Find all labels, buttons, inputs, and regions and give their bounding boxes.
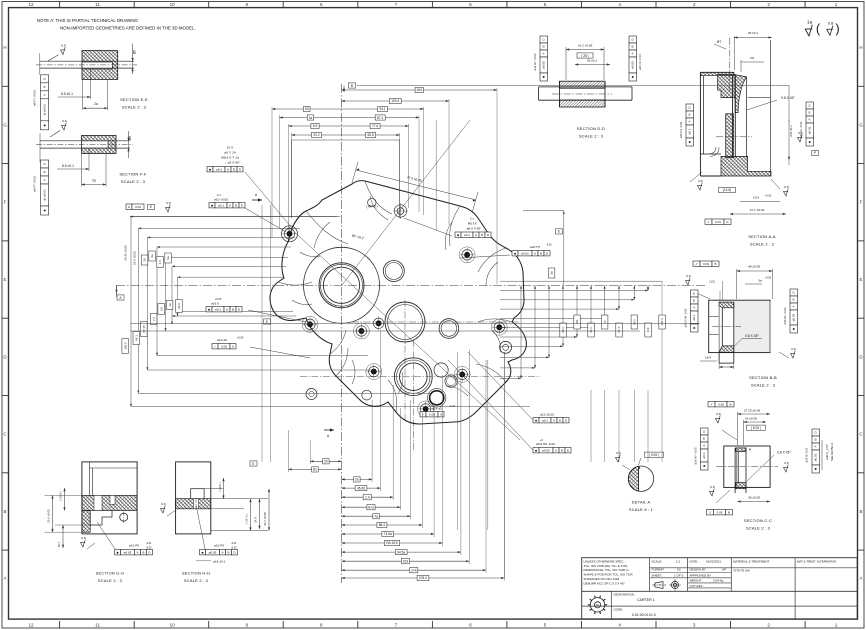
section B-B left datum stack — [691, 290, 699, 332]
svg-text:105.4: 105.4 — [419, 576, 427, 580]
mid bore left — [385, 302, 425, 342]
svg-text:27.1 ±0.02: 27.1 ±0.02 — [750, 208, 765, 212]
svg-text:ø0.1: ø0.1 — [464, 233, 470, 237]
upper lug bolt — [397, 208, 404, 215]
section F-F hatched bushing — [82, 136, 117, 154]
svg-text://: // — [696, 262, 698, 266]
svg-text:M6x1.0 ↧ 2a: M6x1.0 ↧ 2a — [221, 156, 239, 160]
top stack inner rectangle lines — [291, 140, 293, 218]
svg-text:NON-IMPORTED GEOMETRIES ARE DE: NON-IMPORTED GEOMETRIES ARE DEFINED IN T… — [60, 26, 196, 31]
svg-text:26 ±0.1: 26 ±0.1 — [587, 59, 598, 63]
svg-text:+0.05: +0.05 — [237, 336, 244, 340]
left stack lower horizontals — [147, 369, 372, 371]
svg-text:87.15: 87.15 — [142, 325, 146, 333]
svg-text:30: 30 — [143, 258, 147, 262]
svg-text:ø6.6 H8 -0.02: ø6.6 H8 -0.02 — [536, 442, 555, 446]
svg-text:SCALE 2 : 3: SCALE 2 : 3 — [746, 526, 771, 531]
central part main outline — [270, 181, 526, 424]
section E-E dia 5 dim — [132, 44, 134, 74]
svg-text:⌄ ø5 X 90°: ⌄ ø5 X 90° — [224, 161, 240, 165]
svg-text:WEIGHT :: WEIGHT : — [690, 579, 704, 583]
svg-text:24 ±0.05: 24 ±0.05 — [745, 417, 757, 421]
svg-text:B: B — [702, 437, 706, 439]
svg-text:1+4: 1+4 — [411, 569, 417, 573]
svg-text:0.8 X 45°: 0.8 X 45° — [777, 451, 791, 455]
section C-C dim (8.25) — [747, 425, 766, 430]
svg-text:8: 8 — [320, 623, 323, 628]
svg-text:B: B — [729, 402, 731, 406]
view arrow A bottom — [330, 428, 334, 431]
zone band ticks and numbers top — [59, 2, 61, 8]
section A-A left wall lines — [699, 72, 701, 176]
svg-text:5: 5 — [544, 623, 547, 628]
svg-text:2a: 2a — [550, 271, 554, 275]
svg-text:94.5a: 94.5a — [397, 550, 405, 554]
svg-text:TOL. ISO 2768 (6H) 7O+ E 7OS): TOL. ISO 2768 (6H) 7O+ E 7OS) — [584, 564, 628, 568]
svg-text:ø10 P9: ø10 P9 — [214, 544, 224, 548]
left lug circle — [362, 390, 372, 400]
svg-text:0.8: 0.8 — [716, 412, 721, 416]
svg-text:12: 12 — [28, 2, 34, 7]
section A-A surface lower right — [783, 185, 788, 196]
svg-text:A: A — [692, 306, 696, 308]
svg-text:3a: 3a — [758, 279, 762, 283]
svg-text:23.6 ±0.05: 23.6 ±0.05 — [47, 509, 51, 523]
svg-text:8.5 ±0.1: 8.5 ±0.1 — [61, 92, 73, 96]
svg-text:(12): (12) — [709, 280, 715, 284]
svg-text:24.8: 24.8 — [254, 517, 258, 523]
svg-text:0.8: 0.8 — [828, 21, 834, 26]
svg-text:0.8: 0.8 — [62, 119, 67, 123]
title block designation row line — [582, 590, 858, 592]
section B-B bushing hatch bottom — [719, 346, 734, 352]
section B-B surface mark right — [790, 347, 795, 358]
section A-A parallel frame — [705, 219, 731, 224]
svg-text:A: A — [808, 118, 812, 120]
section H-H step box — [191, 489, 204, 499]
svg-text:SCALE 2 : 3: SCALE 2 : 3 — [579, 134, 604, 139]
svg-text:ø14 a5: ø14 a5 — [432, 407, 442, 411]
right lug circle — [500, 341, 512, 353]
svg-text:1:2: 1:2 — [676, 560, 681, 564]
svg-text:A: A — [440, 412, 442, 416]
svg-text:ø0.1: ø0.1 — [216, 167, 222, 171]
svg-text:11: 11 — [95, 623, 100, 628]
svg-text:E: E — [252, 462, 254, 466]
svg-text:A: A — [42, 94, 46, 96]
svg-text://: // — [709, 510, 711, 514]
detail A hatch crescent — [628, 466, 638, 491]
svg-text:( 0.05 ): ( 0.05 ) — [649, 453, 659, 457]
svg-text:+0.05: +0.05 — [765, 195, 772, 198]
svg-text:75.4: 75.4 — [617, 327, 621, 333]
section C-C ring hatch bottom — [736, 483, 746, 489]
svg-text:ø8 F7 +0.03: ø8 F7 +0.03 — [33, 90, 37, 106]
svg-text:MATERIAL & TREATMENT: MATERIAL & TREATMENT — [733, 560, 770, 564]
svg-text:0.05: 0.05 — [717, 510, 723, 514]
svg-text:(12.6): (12.6) — [723, 188, 731, 192]
svg-text:45.6: 45.6 — [589, 327, 593, 333]
section C-C left datum stack — [701, 428, 709, 470]
svg-text:-0.02: -0.02 — [146, 547, 152, 550]
title block outer — [582, 558, 858, 619]
svg-text:ø0.05: ø0.05 — [124, 550, 132, 554]
svg-text:0.8: 0.8 — [784, 185, 789, 189]
section B-B parallel frame top — [693, 261, 719, 266]
svg-text:B: B — [542, 45, 546, 47]
section F-F surface mark — [61, 119, 66, 130]
svg-text:ø0.02: ø0.02 — [521, 251, 529, 255]
svg-text:( 10.9 ): ( 10.9 ) — [218, 482, 222, 491]
right vertical dim from part top — [523, 210, 564, 212]
svg-text:ø16 h6 -0.01: ø16 h6 -0.01 — [638, 54, 642, 70]
svg-text:): ) — [835, 21, 839, 36]
svg-text:27.25 ±0.05: 27.25 ±0.05 — [744, 409, 761, 413]
svg-text:0.8: 0.8 — [161, 502, 166, 506]
svg-text:G: G — [3, 122, 7, 127]
svg-text:E: E — [150, 205, 152, 209]
section A-A curved wedge hatch — [735, 75, 746, 113]
long horizontal line mid1 — [130, 322, 700, 324]
svg-text:SCALE 2 : 3: SCALE 2 : 3 — [122, 105, 147, 110]
svg-text:SCALE 2 : 3: SCALE 2 : 3 — [98, 578, 123, 583]
svg-text:0.8: 0.8 — [750, 56, 755, 60]
svg-text:103: 103 — [403, 560, 409, 564]
svg-text:B: B — [540, 251, 542, 255]
svg-text:B: B — [792, 298, 796, 300]
svg-text:ø0.1: ø0.1 — [692, 314, 696, 320]
svg-text:ø0.05: ø0.05 — [542, 61, 546, 69]
svg-text:11: 11 — [95, 2, 100, 7]
svg-text:1: 1 — [835, 2, 838, 7]
right staircase verticals — [647, 285, 649, 290]
section A-A top hatched bar — [700, 72, 734, 75]
svg-text:0.8 X 45°: 0.8 X 45° — [781, 96, 795, 100]
svg-text:ø0.05: ø0.05 — [209, 550, 217, 554]
svg-text:( Ø7.5 ): ( Ø7.5 ) — [366, 205, 377, 209]
svg-text:ø26 H7 +0.05: ø26 H7 +0.05 — [694, 447, 698, 464]
svg-text:C: C — [3, 432, 6, 437]
svg-text:B: B — [142, 550, 144, 554]
section B-B body — [709, 300, 770, 352]
svg-text:74.5a: 74.5a — [384, 532, 392, 536]
left stack G frame — [126, 204, 144, 209]
svg-text:4: 4 — [618, 2, 621, 7]
title block gear logo — [588, 596, 607, 614]
svg-text:20.6: 20.6 — [561, 327, 565, 333]
svg-text://: // — [708, 220, 710, 224]
svg-text:AP: AP — [722, 568, 726, 572]
svg-text:8+3: 8+3 — [368, 505, 374, 509]
section B-B centerline — [712, 326, 741, 328]
svg-text:( 24.1 ): ( 24.1 ) — [245, 514, 249, 523]
section B-B surface mark left — [685, 274, 690, 285]
svg-text:B: B — [814, 438, 818, 440]
svg-text:DESIGN BY :: DESIGN BY : — [690, 568, 708, 572]
svg-text:88.4: 88.4 — [379, 523, 385, 527]
bolt holes with washers — [287, 231, 292, 236]
svg-text:0.8: 0.8 — [784, 461, 789, 465]
svg-text:SECTION A-A: SECTION A-A — [748, 234, 776, 239]
section D-D hatched bushing — [560, 81, 606, 88]
svg-text:A: A — [136, 550, 138, 554]
svg-text:0.8: 0.8 — [798, 131, 803, 135]
section F-F dia 5 dim — [128, 131, 130, 158]
svg-text:B: B — [227, 550, 229, 554]
svg-text:30a: 30a — [575, 319, 579, 324]
title block verticals — [649, 558, 651, 592]
section C-C surface small — [783, 461, 788, 472]
svg-text:ø20 H7: ø20 H7 — [530, 245, 540, 249]
section E-E datum frames — [41, 75, 49, 130]
svg-text:ø0.05: ø0.05 — [631, 61, 635, 69]
svg-text:DATE :: DATE : — [690, 560, 700, 564]
svg-text:A2: A2 — [677, 568, 681, 572]
section F-F left extension — [39, 133, 41, 162]
svg-text:SECTION D-D: SECTION D-D — [577, 126, 605, 131]
svg-text:38 ±0.05: 38 ±0.05 — [748, 496, 760, 500]
svg-text:D: D — [3, 354, 6, 359]
section G-G hatch band — [82, 495, 137, 510]
section A-A face step line — [748, 97, 771, 99]
svg-text:2.04 Kg: 2.04 Kg — [713, 579, 724, 583]
svg-text:48 ±0.05: 48 ±0.05 — [748, 265, 760, 269]
long horizontal line upper — [130, 216, 340, 218]
svg-text:94.1: 94.1 — [379, 107, 385, 111]
left stack surface mark — [165, 201, 170, 212]
svg-text:12: 12 — [28, 623, 34, 628]
section H-H body outline — [176, 462, 211, 534]
svg-text:SCALE 2 : 3: SCALE 2 : 3 — [184, 578, 209, 583]
slanted dim 47.5 — [352, 162, 358, 183]
section E-E centerline — [36, 64, 137, 66]
section A-A dim (12.6) — [719, 187, 736, 192]
section F-F centerline — [36, 144, 133, 146]
svg-text:A: A — [232, 344, 234, 348]
svg-text:A: A — [229, 203, 231, 207]
svg-text:63: 63 — [305, 107, 309, 111]
svg-text:DETAIL A: DETAIL A — [632, 500, 651, 505]
section A-A centerline — [729, 38, 731, 92]
svg-text:1.5: 1.5 — [158, 260, 162, 264]
svg-text:65.5: 65.5 — [367, 133, 373, 137]
small top boss — [368, 198, 376, 206]
svg-text:A: A — [702, 444, 706, 446]
rotated label right column — [548, 268, 555, 278]
svg-text:CODE :: CODE : — [614, 607, 625, 611]
svg-text:128.4: 128.4 — [660, 318, 664, 326]
right side verticals to sections — [457, 352, 459, 530]
section F-F bore lines — [40, 140, 130, 142]
svg-text:SECTION E-E: SECTION E-E — [120, 97, 148, 102]
svg-text:A: A — [555, 448, 557, 452]
svg-text:7: 7 — [395, 2, 398, 7]
main bore circles — [319, 263, 364, 308]
svg-text:SURFACES ISO ISO 1302: SURFACES ISO ISO 1302 — [584, 577, 620, 581]
svg-text:B: B — [481, 233, 483, 237]
svg-text:A: A — [553, 418, 555, 422]
svg-text:B: B — [42, 86, 46, 88]
right staircase rotated labels — [560, 323, 567, 337]
svg-text:FORMAT :: FORMAT : — [652, 568, 666, 572]
svg-text:Ø7: Ø7 — [717, 40, 722, 44]
title block projection symbols — [653, 580, 681, 591]
svg-text:B: B — [692, 299, 696, 301]
long horizontal line lower — [131, 406, 530, 408]
section H-H surface mark — [160, 502, 165, 513]
svg-text:66.45 ±0.05: 66.45 ±0.05 — [124, 245, 128, 261]
svg-text:0.8: 0.8 — [791, 347, 796, 351]
svg-text:SCALE 2 : 3: SCALE 2 : 3 — [121, 179, 146, 184]
central part inner pocket outline — [292, 196, 501, 396]
svg-text:1.4: 1.4 — [365, 495, 370, 499]
svg-text:100.4: 100.4 — [391, 99, 399, 103]
main bore boss arc — [304, 247, 380, 323]
svg-text:1a: 1a — [807, 20, 813, 25]
svg-text:ø47 F6 +0.02: ø47 F6 +0.02 — [799, 121, 803, 138]
svg-text:2: 2 — [767, 623, 770, 628]
section G-G inner step lines — [89, 462, 91, 496]
section A-A left datum stack — [686, 104, 694, 146]
svg-text:5.5: 5.5 — [313, 124, 318, 128]
section G-G body outline — [82, 462, 137, 534]
svg-text:-0.01: -0.01 — [546, 244, 552, 247]
svg-text:2 x: 2 x — [470, 217, 475, 221]
svg-text:20: 20 — [324, 460, 328, 464]
section G-G lower-left hatch — [82, 511, 90, 533]
view arrow A top — [258, 198, 262, 201]
section A-A datum target P — [812, 150, 819, 155]
svg-text:7.1: 7.1 — [152, 317, 156, 321]
svg-text://: // — [711, 402, 713, 406]
top dimension stack — [342, 89, 498, 91]
svg-text:SHEET :: SHEET : — [652, 573, 664, 577]
svg-text:4: 4 — [618, 623, 621, 628]
svg-text:H: H — [859, 45, 862, 50]
svg-text:CARTER 1: CARTER 1 — [637, 598, 655, 602]
svg-text:0.8: 0.8 — [686, 274, 691, 278]
svg-text:( 8.25 ): ( 8.25 ) — [751, 426, 761, 430]
svg-text:SECTION G-G: SECTION G-G — [96, 571, 125, 576]
svg-text:ø0.1: ø0.1 — [688, 128, 692, 134]
svg-text:H: H — [3, 45, 6, 50]
section D-D left datum stack — [540, 36, 548, 81]
svg-text:Ø5: Ø5 — [128, 136, 132, 140]
svg-text:94.1: 94.1 — [134, 335, 138, 341]
svg-text:6.5: 6.5 — [159, 307, 163, 311]
svg-text:SCALE :: SCALE : — [652, 560, 664, 564]
svg-text:FG: FG — [596, 603, 600, 607]
central part inner web curves — [278, 181, 512, 412]
svg-text:0.03: 0.03 — [703, 262, 709, 266]
section D-D right datum stack — [629, 36, 637, 81]
svg-text:7a: 7a — [374, 515, 378, 519]
svg-text:A: A — [814, 445, 818, 447]
svg-text:ø0.05: ø0.05 — [542, 448, 550, 452]
diagonal cut-plane trace — [288, 226, 520, 440]
section C-C surface mark top — [715, 412, 720, 423]
svg-text:0.8: 0.8 — [166, 201, 171, 205]
svg-text:ø8 F7 +0.03: ø8 F7 +0.03 — [33, 176, 37, 192]
svg-text:77.6: 77.6 — [372, 124, 378, 128]
svg-text:A: A — [792, 305, 796, 307]
svg-text:E: E — [558, 230, 560, 234]
svg-text:ø41 ±0.1: ø41 ±0.1 — [789, 125, 793, 137]
svg-text:B: B — [235, 203, 237, 207]
svg-text:◎ ø0.03: ◎ ø0.03 — [42, 104, 46, 115]
svg-text:B: B — [688, 113, 692, 115]
bottom stack extension verticals — [309, 440, 311, 464]
svg-text:SECTION H-H: SECTION H-H — [182, 571, 210, 576]
svg-text:B: B — [728, 510, 730, 514]
svg-text:36.7 ±0.05: 36.7 ±0.05 — [263, 512, 267, 526]
svg-text:SECTION B-B: SECTION B-B — [749, 375, 777, 380]
svg-text:26 ±0.1: 26 ±0.1 — [748, 31, 759, 35]
bottom left lug — [306, 389, 317, 400]
svg-text:10: 10 — [170, 623, 176, 628]
svg-text:ø0.1: ø0.1 — [218, 203, 224, 207]
svg-text:G: G — [859, 122, 863, 127]
svg-text:A: A — [42, 179, 46, 181]
svg-text:3: 3 — [693, 623, 696, 628]
svg-text:9: 9 — [246, 623, 249, 628]
svg-text:0.8: 0.8 — [81, 536, 86, 540]
svg-text:A: A — [688, 120, 692, 122]
mid bore right small — [439, 319, 459, 339]
svg-text:0.05: 0.05 — [221, 344, 227, 348]
svg-text:ø10 P9: ø10 P9 — [129, 544, 139, 548]
svg-text:B: B — [631, 45, 635, 47]
section A-A web hatch — [726, 114, 734, 158]
svg-text:F: F — [860, 200, 863, 205]
svg-text:UNLESS OTHERWISE SPEC. :: UNLESS OTHERWISE SPEC. : — [584, 559, 627, 563]
section A-A main hatch block — [718, 75, 735, 98]
svg-text:B1: B1 — [313, 468, 317, 472]
title block logo divider — [610, 591, 612, 619]
svg-text:0.05: 0.05 — [718, 402, 724, 406]
svg-text:6: 6 — [469, 623, 472, 628]
svg-text:◎ ø0.03: ◎ ø0.03 — [42, 189, 46, 200]
svg-text:+0.05: +0.05 — [765, 277, 772, 280]
svg-text:6: 6 — [469, 2, 472, 7]
bottom dimension stack — [310, 460, 341, 462]
lower big ring — [394, 358, 432, 396]
svg-text:( 28 ): ( 28 ) — [581, 54, 588, 58]
svg-text:105.5: 105.5 — [123, 342, 127, 350]
section D-D dim (28) — [577, 53, 593, 58]
svg-text:0.8 X 45°: 0.8 X 45° — [745, 334, 759, 338]
svg-text:SCALE 2 : 3: SCALE 2 : 3 — [750, 242, 775, 247]
left stack verticals L-dims — [130, 217, 132, 407]
svg-text:0-01:00.01.01.0: 0-01:00.01.01.0 — [632, 613, 656, 617]
svg-text:0.8: 0.8 — [61, 43, 66, 47]
section B-B bushing hatch top — [719, 302, 734, 308]
svg-text:ø12 H7 +0.02: ø12 H7 +0.02 — [533, 53, 537, 70]
svg-text:113: 113 — [646, 327, 650, 332]
svg-text:55.5 ±0.05: 55.5 ±0.05 — [133, 251, 137, 265]
svg-text:A: A — [221, 550, 223, 554]
svg-text:B: B — [714, 262, 716, 266]
svg-text:SCALE 2 : 3: SCALE 2 : 3 — [751, 383, 776, 388]
svg-text:B: B — [4, 509, 7, 514]
svg-text:RA 15.5: RA 15.5 — [386, 541, 398, 545]
svg-text:01/02/2021: 01/02/2021 — [706, 560, 721, 564]
section A-A fillet arcs bottom left — [708, 147, 719, 156]
svg-text:P: P — [814, 151, 816, 155]
datum flag E right — [556, 229, 563, 234]
lower right double circle — [445, 375, 457, 387]
section C-C parallel frame bottom — [707, 510, 733, 515]
